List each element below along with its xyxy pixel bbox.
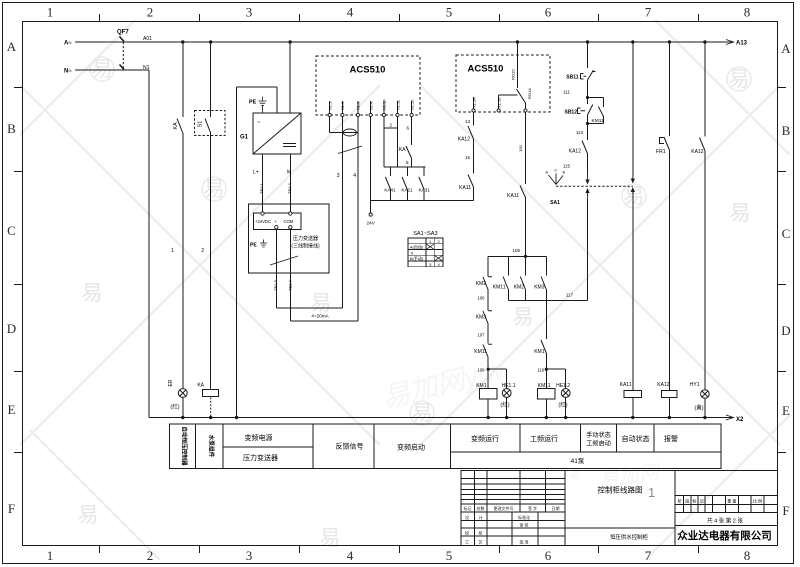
- svg-text:X1:4: X1:4: [368, 101, 373, 110]
- svg-text:恒压供水控制柜: 恒压供水控制柜: [610, 533, 648, 541]
- svg-text:1: 1: [648, 485, 655, 500]
- svg-text:KM2: KM2: [476, 281, 487, 287]
- svg-text:+24VDC: +24VDC: [255, 219, 271, 224]
- svg-text:KA11: KA11: [507, 193, 519, 199]
- svg-text:A(自动): A(自动): [410, 244, 424, 250]
- svg-text:KM1: KM1: [476, 383, 487, 389]
- svg-text:计: 计: [479, 514, 483, 520]
- svg-text:SA1: SA1: [550, 200, 560, 206]
- svg-text:ACS510: ACS510: [350, 65, 386, 76]
- svg-text:113: 113: [576, 130, 584, 135]
- svg-text:X2: X2: [736, 417, 744, 423]
- svg-text:签 字: 签 字: [528, 505, 537, 511]
- svg-text:117: 117: [566, 293, 574, 298]
- svg-text:111: 111: [563, 90, 570, 95]
- svg-text:A≈: A≈: [64, 41, 72, 47]
- svg-text:G1: G1: [240, 135, 249, 141]
- svg-text:重 量: 重 量: [727, 498, 736, 504]
- svg-text:KA: KA: [173, 122, 179, 130]
- svg-text:TB1:4: TB1:4: [288, 280, 293, 291]
- svg-text:核: 核: [479, 530, 483, 536]
- svg-text:水泵组件: 水泵组件: [208, 434, 216, 458]
- svg-text:105: 105: [512, 248, 520, 253]
- svg-text:N≈: N≈: [64, 69, 72, 75]
- svg-text:41泵: 41泵: [571, 457, 585, 465]
- svg-text:2: 2: [389, 123, 392, 128]
- svg-text:段: 段: [685, 498, 689, 504]
- svg-text:变频运行: 变频运行: [471, 434, 499, 443]
- svg-text:1: 1: [171, 248, 174, 254]
- svg-text:阶: 阶: [678, 498, 682, 504]
- svg-text:N1: N1: [143, 65, 150, 71]
- svg-text:(红): (红): [170, 403, 179, 411]
- svg-text:控制柜线路图: 控制柜线路图: [598, 485, 643, 495]
- svg-text:109: 109: [478, 368, 486, 373]
- svg-text:KA: KA: [197, 383, 204, 389]
- svg-text:A: A: [546, 171, 549, 175]
- svg-text:处数: 处数: [477, 505, 485, 511]
- svg-text:KM11: KM11: [493, 285, 506, 291]
- svg-text:PE: PE: [249, 100, 257, 106]
- svg-text:2: 2: [201, 248, 204, 254]
- svg-text:HE1.2: HE1.2: [556, 383, 570, 389]
- svg-text:KM2: KM2: [514, 285, 525, 291]
- svg-text:工频启动: 工频启动: [586, 440, 611, 448]
- svg-text:众业达电器有限公司: 众业达电器有限公司: [677, 529, 772, 542]
- svg-text:+: +: [275, 219, 278, 224]
- svg-text:KA12: KA12: [569, 149, 581, 155]
- svg-text:压力变送器: 压力变送器: [293, 235, 318, 242]
- svg-text:L+: L+: [253, 170, 259, 176]
- svg-text:批 准: 批 准: [519, 539, 528, 545]
- svg-text:4: 4: [353, 173, 356, 179]
- svg-text:手动状态: 手动状态: [586, 431, 611, 439]
- svg-text:KM11: KM11: [592, 118, 605, 124]
- svg-text:0: 0: [555, 169, 557, 173]
- svg-text:PE: PE: [250, 243, 257, 249]
- svg-text:13: 13: [465, 119, 471, 124]
- svg-text:S1: S1: [198, 121, 204, 128]
- svg-text:艺: 艺: [479, 540, 483, 545]
- svg-text:报警: 报警: [664, 434, 678, 443]
- svg-text:KM3: KM3: [534, 285, 545, 291]
- svg-text:15: 15: [465, 155, 471, 160]
- svg-text:B(手动): B(手动): [410, 255, 424, 261]
- svg-text:24V: 24V: [367, 221, 376, 226]
- svg-text:标记: 标记: [464, 505, 472, 511]
- svg-text:X1:1: X1:1: [328, 101, 333, 110]
- svg-text:TB1:2: TB1:2: [287, 183, 292, 194]
- svg-text:比 例: 比 例: [753, 498, 762, 504]
- svg-text:KA11: KA11: [459, 185, 471, 191]
- svg-text:QF7: QF7: [117, 30, 129, 36]
- svg-text:X1:11: X1:11: [395, 99, 400, 110]
- svg-text:日期: 日期: [552, 505, 560, 511]
- svg-text:设: 设: [465, 514, 469, 520]
- svg-text:KA31: KA31: [419, 188, 431, 193]
- svg-text:变频启动: 变频启动: [397, 443, 425, 452]
- svg-text:KA12: KA12: [657, 382, 669, 388]
- svg-text:A13: A13: [736, 41, 748, 47]
- svg-text:自动恒压控制器: 自动恒压控制器: [181, 426, 189, 466]
- svg-text:变频电源: 变频电源: [245, 433, 273, 442]
- svg-text:100: 100: [518, 145, 523, 152]
- svg-text:COM: COM: [284, 219, 294, 224]
- svg-text:(三线制接线): (三线制接线): [291, 243, 320, 250]
- svg-text:(红): (红): [558, 401, 567, 409]
- svg-text:KM11: KM11: [538, 383, 551, 389]
- svg-text:HY1: HY1: [690, 382, 700, 388]
- svg-text:KM3: KM3: [476, 315, 487, 321]
- svg-text:0: 0: [411, 250, 414, 255]
- svg-text:反馈信号: 反馈信号: [336, 442, 364, 451]
- svg-text:(黄): (黄): [694, 404, 703, 412]
- svg-text:4: 4: [437, 262, 440, 267]
- svg-text:5: 5: [406, 160, 409, 165]
- svg-text:SA1~SA3: SA1~SA3: [413, 231, 437, 237]
- svg-text:工频运行: 工频运行: [530, 434, 558, 443]
- svg-text:RO1A: RO1A: [527, 88, 532, 99]
- svg-text:106: 106: [478, 296, 486, 301]
- svg-text:TB1:3: TB1:3: [273, 280, 278, 291]
- svg-text:(红): (红): [500, 401, 509, 409]
- svg-text:115: 115: [563, 164, 571, 169]
- svg-text:2: 2: [437, 239, 440, 244]
- svg-text:审 核: 审 核: [519, 522, 528, 528]
- svg-text:HE1.1: HE1.1: [502, 383, 516, 389]
- svg-text:ACS510: ACS510: [468, 64, 504, 75]
- svg-text:~: ~: [257, 120, 261, 126]
- svg-text:107: 107: [478, 333, 486, 338]
- svg-text:X1:16: X1:16: [497, 97, 502, 108]
- svg-text:压力变送器: 压力变送器: [243, 453, 278, 462]
- svg-text:记: 记: [700, 498, 704, 504]
- svg-text:KA41: KA41: [384, 188, 396, 193]
- svg-text:1: 1: [429, 239, 432, 244]
- svg-text:标准化: 标准化: [518, 514, 530, 520]
- svg-text:KA21: KA21: [401, 188, 413, 193]
- svg-text:ER: ER: [168, 379, 174, 386]
- svg-text:X1:10: X1:10: [382, 99, 387, 110]
- svg-text:KA12: KA12: [691, 149, 703, 155]
- svg-text:KM11: KM11: [474, 349, 487, 355]
- svg-text:KA12: KA12: [458, 137, 470, 143]
- svg-text:B: B: [563, 171, 566, 175]
- svg-text:自动状态: 自动状态: [622, 434, 650, 443]
- svg-text:X1:12: X1:12: [409, 99, 414, 110]
- svg-text:SB11: SB11: [566, 75, 578, 81]
- svg-text:工: 工: [465, 540, 469, 545]
- svg-text:X1:14: X1:14: [472, 97, 477, 108]
- svg-text:A01: A01: [143, 36, 152, 42]
- svg-text:4~20mA: 4~20mA: [311, 314, 329, 319]
- svg-text:3: 3: [337, 173, 340, 179]
- svg-text:共 4 张 第 2 张: 共 4 张 第 2 张: [707, 517, 743, 525]
- svg-text:校: 校: [465, 530, 469, 536]
- svg-text:KA: KA: [399, 147, 406, 153]
- svg-text:M: M: [287, 170, 291, 176]
- svg-text:FR1: FR1: [656, 149, 666, 155]
- svg-text:SB12: SB12: [564, 110, 577, 116]
- svg-text:X1:5: X1:5: [340, 101, 345, 110]
- svg-text:6: 6: [406, 126, 409, 131]
- svg-text:更改文件号: 更改文件号: [494, 505, 514, 511]
- svg-text:3: 3: [429, 262, 432, 267]
- svg-text:TB1:1: TB1:1: [259, 183, 264, 194]
- svg-text:119: 119: [537, 368, 544, 373]
- svg-text:RO1C: RO1C: [511, 69, 516, 80]
- svg-text:KA11: KA11: [620, 382, 632, 388]
- svg-text:标: 标: [692, 498, 696, 504]
- svg-text:KM1: KM1: [534, 349, 545, 355]
- svg-text:X1:9: X1:9: [356, 101, 361, 110]
